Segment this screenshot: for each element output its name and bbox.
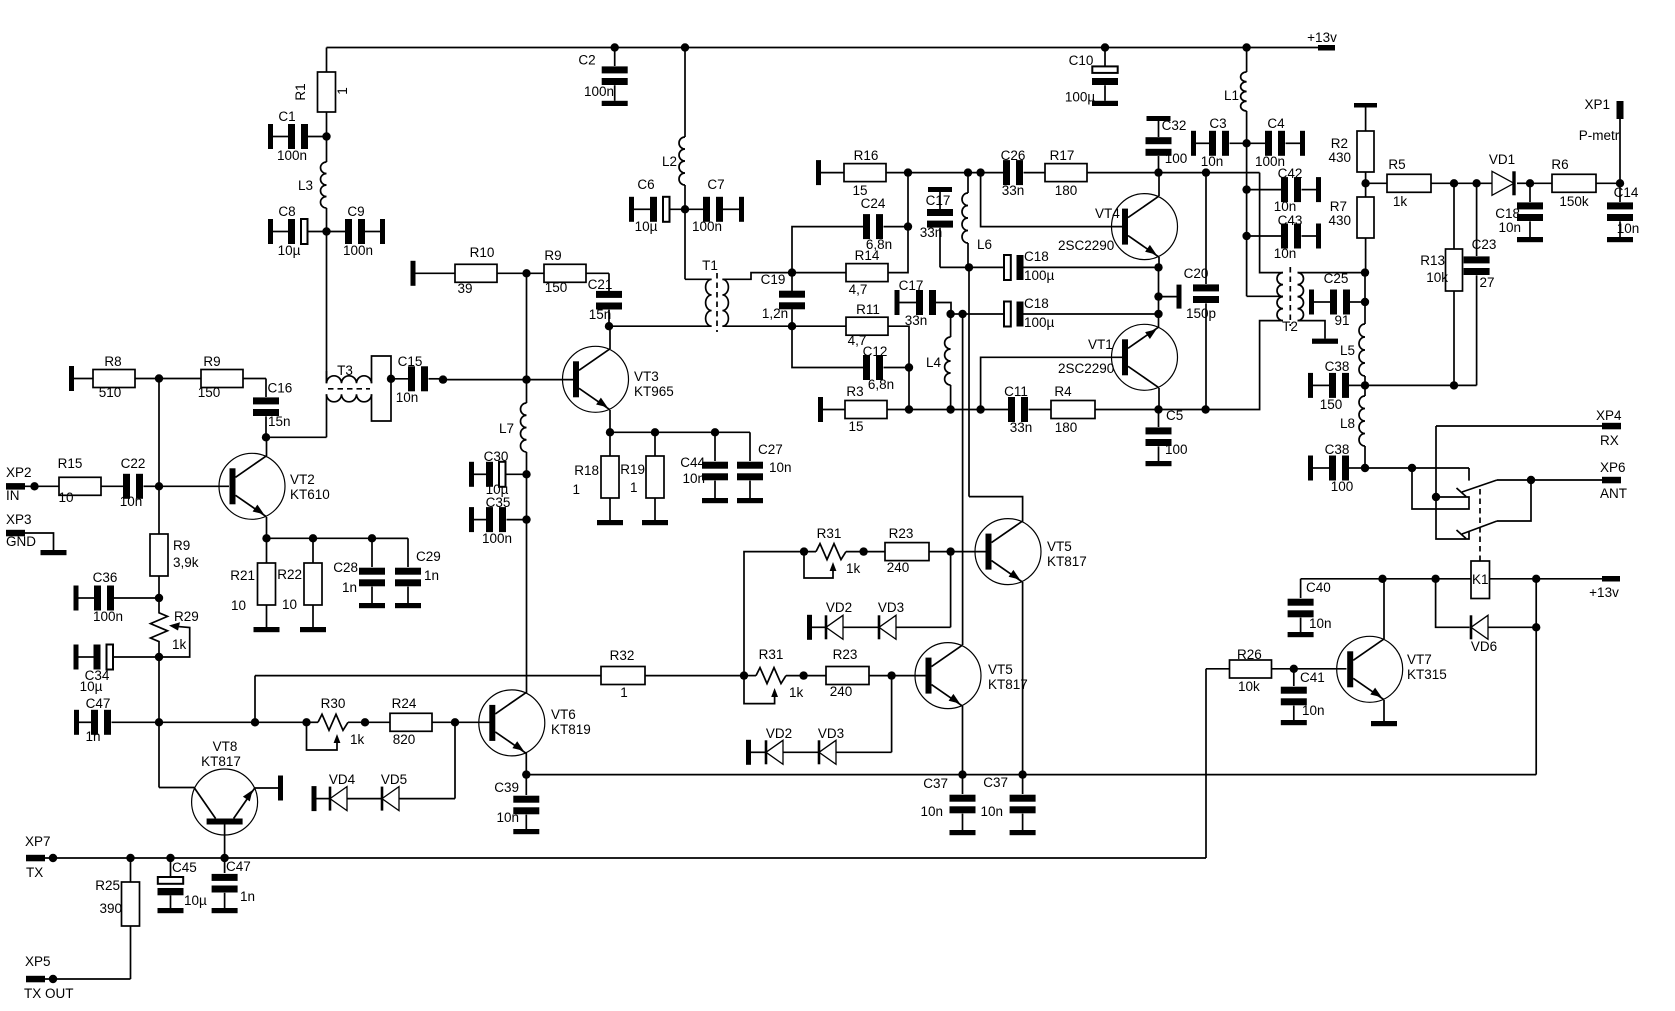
potentiometer R31 1k lower: [744, 675, 756, 677]
node R23 upper junction: [859, 547, 867, 555]
resistor R9 3,9k: [158, 486, 160, 534]
terminal bar at VD4: [312, 786, 317, 811]
svg-text:R18: R18: [574, 463, 599, 478]
wire upper VT5 collector riser: [969, 497, 1023, 522]
wire junction to T3 bottom: [266, 436, 327, 438]
resistor R25 390: [130, 858, 132, 882]
svg-text:C27: C27: [758, 442, 783, 457]
node VT4 emitter - C18 junction: [1154, 263, 1162, 271]
capacitor C36 100n: [74, 586, 79, 611]
svg-text:1: 1: [572, 482, 580, 497]
svg-text:K1: K1: [1472, 572, 1489, 587]
transistor VT7 KT315: [1337, 636, 1403, 702]
capacitor C28 1n: [371, 538, 373, 567]
node R25 tap: [126, 854, 134, 862]
node VD1-C18 junction: [1526, 179, 1534, 187]
ground below C40: [1288, 632, 1314, 637]
wire C47 junction right to R30: [159, 721, 307, 723]
resistor R7 430: [1357, 197, 1374, 238]
svg-text:150: 150: [1320, 397, 1343, 412]
node C16-T3-VT2 collector junction: [262, 433, 270, 441]
svg-text:C36: C36: [93, 570, 118, 585]
svg-text:100n: 100n: [277, 148, 307, 163]
svg-text:R30: R30: [321, 696, 346, 711]
wire to VT1 emitter: [1158, 297, 1160, 327]
node R29-C34 junction: [155, 653, 163, 661]
svg-text:150k: 150k: [1559, 194, 1589, 209]
svg-text:15: 15: [848, 419, 863, 434]
node emitter rail C37 second junction: [1018, 770, 1026, 778]
wire VT2 collector: [266, 437, 268, 456]
inductor L4: [950, 314, 952, 337]
svg-text:VD1: VD1: [1489, 152, 1515, 167]
resistor R19 1: [654, 432, 656, 456]
svg-text:15n: 15n: [589, 307, 612, 322]
svg-text:3,9k: 3,9k: [173, 555, 199, 570]
node R6-XP1-C14 junction: [1616, 179, 1624, 187]
transformer T1: [685, 278, 712, 280]
resistor R23 240 lower: [804, 675, 826, 677]
relay switch arm lower: [1462, 521, 1497, 534]
ground below C44: [702, 498, 728, 503]
svg-text:C28: C28: [333, 560, 358, 575]
wire VD6 junction down to emitter rail: [1535, 627, 1537, 774]
svg-text:33n: 33n: [905, 313, 928, 328]
svg-text:TX OUT: TX OUT: [24, 986, 74, 1001]
svg-text:VD2: VD2: [826, 600, 852, 615]
svg-text:R31: R31: [759, 647, 784, 662]
transistor VT5 KT817 lower: [915, 643, 981, 709]
node C20 bottom junction: [1201, 405, 1209, 413]
svg-text:C17: C17: [926, 193, 951, 208]
svg-text:C23: C23: [1472, 237, 1497, 252]
svg-text:4,7: 4,7: [849, 282, 868, 297]
capacitor C45 10µ polarized: [170, 858, 172, 877]
svg-text:C44: C44: [680, 455, 705, 470]
terminal bar at VD2 upper: [807, 615, 812, 640]
capacitor C21 15n: [608, 273, 610, 291]
svg-text:10n: 10n: [980, 804, 1003, 819]
svg-text:VD2: VD2: [766, 726, 792, 741]
inductor L1: [1246, 48, 1248, 73]
ground at XP3: [41, 550, 67, 555]
svg-text:C25: C25: [1324, 271, 1349, 286]
node VT6 emitter junction: [522, 770, 530, 778]
diode VD2 lower: [765, 740, 768, 764]
wire VT8 base down to TX rail: [224, 824, 226, 859]
svg-text:C22: C22: [121, 456, 146, 471]
svg-text:C17: C17: [899, 278, 924, 293]
svg-text:10n: 10n: [920, 804, 943, 819]
svg-text:10n: 10n: [1309, 616, 1332, 631]
svg-text:1,2n: 1,2n: [762, 306, 788, 321]
svg-text:1n: 1n: [424, 568, 439, 583]
svg-text:C38: C38: [1325, 359, 1350, 374]
svg-text:R26: R26: [1237, 647, 1262, 662]
wire VT2 base: [159, 485, 229, 487]
svg-text:C12: C12: [863, 344, 888, 359]
svg-text:VD3: VD3: [818, 726, 844, 741]
svg-text:1: 1: [620, 685, 628, 700]
capacitor C2 100n: [614, 48, 616, 67]
inductor L8: [1364, 385, 1366, 396]
svg-text:R10: R10: [470, 245, 495, 260]
wire C47 junction down to VT8: [158, 722, 160, 787]
ground below C45: [158, 908, 184, 913]
svg-text:C18: C18: [1024, 249, 1049, 264]
svg-text:1k: 1k: [1393, 194, 1408, 209]
node XP6 pole junction: [1527, 476, 1535, 484]
svg-text:2SC2290: 2SC2290: [1058, 361, 1114, 376]
wire TX rail: [45, 857, 1206, 859]
svg-text:6,8n: 6,8n: [868, 377, 894, 392]
svg-text:XP3: XP3: [6, 512, 32, 527]
svg-text:33n: 33n: [1010, 420, 1033, 435]
svg-text:C6: C6: [637, 177, 654, 192]
node R26-C41 junction: [1290, 665, 1298, 673]
node VT5 lower base junction: [887, 671, 895, 679]
svg-text:15n: 15n: [268, 414, 291, 429]
diodes chain wire upper: [950, 552, 952, 628]
svg-text:KT610: KT610: [290, 487, 330, 502]
svg-text:10n: 10n: [120, 494, 143, 509]
resistor R3 15 with terminal: [818, 397, 823, 422]
node VT8 base tap: [220, 854, 228, 862]
svg-text:C7: C7: [707, 177, 724, 192]
node C38-L5-L8 junction: [1361, 381, 1369, 389]
capacitor C47 1n at TX rail: [224, 858, 226, 873]
svg-text:C11: C11: [1004, 384, 1028, 399]
svg-text:VT2: VT2: [290, 472, 315, 487]
svg-text:C30: C30: [484, 449, 509, 464]
wire VT6 emitter: [525, 753, 527, 775]
svg-text:240: 240: [830, 684, 853, 699]
capacitor C35 100n: [469, 507, 474, 532]
svg-text:100n: 100n: [584, 84, 614, 99]
wire R17 to C32 rail: [1159, 172, 1260, 174]
svg-text:10µ: 10µ: [184, 893, 207, 908]
ground below R18: [597, 520, 623, 525]
capacitor C5 100: [1158, 410, 1160, 428]
svg-text:1k: 1k: [172, 637, 187, 652]
wire L6 junction down to VT5 collector riser: [968, 267, 970, 496]
ground below C5: [1146, 461, 1172, 466]
svg-text:10n: 10n: [1498, 220, 1521, 235]
svg-text:1k: 1k: [846, 561, 861, 576]
capacitor C38 150: [1308, 373, 1313, 398]
svg-text:VT1: VT1: [1088, 337, 1113, 352]
wire emitter rail: [526, 774, 1536, 776]
node C36 junction: [155, 594, 163, 602]
terminal bar at VT4/VT1 midpoint: [1177, 285, 1182, 309]
capacitor C18 100µ upper: [969, 266, 1004, 268]
wire to collector riser: [951, 313, 963, 315]
svg-text:150: 150: [198, 385, 221, 400]
resistor R23 240 upper: [864, 551, 885, 553]
svg-text:R9: R9: [544, 248, 561, 263]
connector XP1 P-metr: [1617, 101, 1624, 119]
node C22-R9 junction at VT2 base: [155, 482, 163, 490]
svg-text:390: 390: [99, 901, 122, 916]
svg-text:1: 1: [630, 480, 638, 495]
svg-text:10: 10: [231, 598, 246, 613]
resistor R22 10: [312, 538, 314, 563]
node XP2 junction: [30, 482, 38, 490]
svg-text:KT965: KT965: [634, 384, 674, 399]
node VT5 upper base junction: [946, 547, 954, 555]
svg-text:XP7: XP7: [25, 834, 51, 849]
node R8-R9 junction: [155, 374, 163, 382]
node R7-T2 junction: [1361, 268, 1369, 276]
svg-text:XP2: XP2: [6, 465, 32, 480]
svg-text:1: 1: [335, 87, 350, 95]
capacitor C17 33n vertical: [928, 187, 952, 192]
svg-text:T3: T3: [337, 363, 353, 378]
svg-text:820: 820: [393, 732, 416, 747]
svg-text:C3: C3: [1209, 116, 1226, 131]
svg-text:1k: 1k: [350, 732, 365, 747]
ground below R22: [300, 627, 326, 632]
wire emitter bus: [267, 537, 409, 539]
capacitor C3 10n: [1191, 131, 1196, 156]
node C30 junction: [522, 470, 530, 478]
wire K1 supply rail: [1301, 578, 1471, 580]
inductor L5: [1359, 324, 1365, 376]
node VD6 left junction: [1431, 575, 1439, 583]
wire TX rail riser to R26: [1205, 669, 1207, 858]
svg-text:C35: C35: [486, 495, 511, 510]
capacitor C29 1n: [372, 537, 408, 539]
node C18 lower - VT1 emitter junction: [1154, 310, 1162, 318]
svg-text:VT6: VT6: [551, 707, 576, 722]
transistor VT4 2SC2290: [1112, 194, 1178, 260]
capacitor C19 1,2n: [791, 273, 793, 291]
node R23 lower junction: [799, 671, 807, 679]
resistor R9 150 (driver): [527, 272, 545, 274]
node top rail junction C2: [611, 43, 619, 51]
capacitor C25 91: [1309, 290, 1314, 315]
node L4 top junction: [946, 310, 954, 318]
svg-text:10µ: 10µ: [635, 219, 658, 234]
capacitor C4 100n: [1247, 142, 1265, 144]
svg-text:C43: C43: [1278, 213, 1303, 228]
capacitor C22 10n: [123, 474, 130, 499]
wire R3 row to T2 riser: [1159, 321, 1284, 410]
capacitor C47 1n: [74, 710, 79, 735]
wire to XP4: [1436, 425, 1602, 427]
wire to relay: [1365, 467, 1469, 469]
svg-text:10n: 10n: [1617, 221, 1640, 236]
node C23 tap: [1472, 179, 1480, 187]
svg-text:C19: C19: [761, 272, 786, 287]
capacitor C20 150p: [1205, 173, 1207, 284]
svg-text:180: 180: [1055, 183, 1078, 198]
node C3-C4-L1 junction: [1242, 139, 1250, 147]
node R13 bottom junction: [1450, 381, 1458, 389]
wire riser to R32 wire: [254, 676, 256, 723]
node C15 dot: [439, 375, 447, 383]
power +13v terminal at relay: [1602, 576, 1620, 582]
wire VT2 emitter: [266, 517, 268, 538]
svg-text:C37: C37: [923, 776, 948, 791]
resistor R1 1: [326, 48, 328, 73]
svg-text:1k: 1k: [789, 685, 804, 700]
node C20 top junction: [1202, 168, 1210, 176]
node C24-R14 junction: [904, 222, 912, 230]
svg-text:1n: 1n: [240, 889, 255, 904]
svg-text:VT4: VT4: [1095, 206, 1120, 221]
capacitor C32 100: [1147, 116, 1171, 121]
wire junction down to C15 wire: [526, 273, 528, 379]
wire VT5 upper emitter: [1022, 582, 1024, 775]
svg-text:C2: C2: [578, 53, 595, 68]
node C21-T1-VT3 collector junction: [605, 322, 613, 330]
transistor VT5 KT817 upper: [975, 519, 1041, 585]
capacitor C14 10n: [1619, 183, 1621, 202]
svg-text:39: 39: [457, 281, 472, 296]
node R24 junction: [361, 718, 369, 726]
svg-text:10n: 10n: [396, 390, 419, 405]
svg-text:2SC2290: 2SC2290: [1058, 238, 1114, 253]
ground below C37: [950, 830, 976, 835]
svg-text:R22: R22: [277, 567, 302, 582]
svg-text:C18: C18: [1495, 206, 1520, 221]
wire lower VT5 collector riser: [962, 314, 964, 645]
node relay input junction: [1408, 464, 1416, 472]
svg-text:C37: C37: [983, 775, 1008, 790]
svg-text:R9: R9: [173, 538, 190, 553]
svg-text:R4: R4: [1054, 384, 1072, 399]
capacitor C17 33n lower: [895, 290, 900, 315]
potentiometer R31 1k upper: [744, 552, 816, 676]
capacitor C10 100µ: [1104, 48, 1106, 67]
node R13 tap: [1450, 179, 1458, 187]
terminal bar at VT8 emitter: [278, 776, 283, 801]
wire C35 junction down to VT6 collector: [526, 520, 528, 694]
resistor R17 180: [1045, 164, 1087, 182]
capacitor C16 15n: [265, 379, 267, 398]
R29 wiper arm: [159, 626, 190, 657]
svg-text:C41: C41: [1300, 670, 1325, 685]
svg-text:R15: R15: [58, 456, 83, 471]
svg-text:100µ: 100µ: [1024, 315, 1055, 330]
svg-text:100: 100: [1331, 479, 1354, 494]
capacitor C7 100n: [685, 208, 703, 210]
svg-text:10n: 10n: [682, 471, 705, 486]
svg-text:100n: 100n: [93, 609, 123, 624]
svg-text:100n: 100n: [692, 219, 722, 234]
capacitor C23 27: [1476, 183, 1478, 256]
transformer T3: [326, 371, 328, 383]
svg-text:VT5: VT5: [988, 662, 1013, 677]
svg-text:100µ: 100µ: [1024, 268, 1055, 283]
capacitor C12 6,8n: [792, 326, 863, 367]
resistor R4 180: [1051, 401, 1095, 419]
ground below T2 right winding: [1312, 339, 1338, 344]
svg-text:10n: 10n: [1302, 703, 1325, 718]
capacitor C8 10µ polarized: [268, 219, 273, 244]
capacitor C18 100µ lower: [1004, 302, 1011, 327]
svg-text:XP4: XP4: [1596, 408, 1622, 423]
node R22 tap: [309, 534, 317, 542]
capacitor C39 10n: [525, 775, 527, 795]
node C43 junction: [1242, 232, 1250, 240]
resistor R24 820: [365, 721, 390, 723]
svg-text:10µ: 10µ: [80, 679, 103, 694]
svg-text:10: 10: [58, 490, 73, 505]
ground below C28: [359, 603, 385, 608]
transistor VT3 KT965: [563, 346, 629, 412]
svg-text:C16: C16: [268, 381, 293, 396]
wire R8 junction down to C22 junction: [158, 379, 160, 487]
ground below C47: [212, 908, 238, 913]
relay switch arm upper: [1462, 480, 1497, 492]
wire VT8 emitter to open terminal: [255, 787, 278, 789]
potentiometer R29 1k: [151, 598, 168, 657]
svg-text:10µ: 10µ: [278, 243, 301, 258]
svg-text:R3: R3: [846, 384, 863, 399]
resistor R5 1k: [1366, 182, 1387, 184]
node top rail junction L1: [1242, 43, 1250, 51]
node VT4 collector junction: [1154, 168, 1162, 176]
node XP7 dot: [49, 854, 57, 862]
inductor L7: [526, 380, 528, 403]
node C38 second junction: [1361, 464, 1369, 472]
svg-text:L3: L3: [298, 178, 313, 193]
capacitor C24 6,8n: [792, 227, 863, 273]
capacitor C1 100n: [268, 124, 273, 149]
wire VD6 junction up: [1535, 579, 1537, 628]
svg-text:R29: R29: [174, 609, 199, 624]
node C44 tap: [711, 428, 719, 436]
capacitor C11 33n: [1008, 397, 1015, 422]
svg-text:C21: C21: [588, 277, 613, 292]
node R19 tap: [651, 428, 659, 436]
svg-text:VT3: VT3: [634, 369, 659, 384]
diode VD1: [1492, 171, 1514, 195]
resistor R15 10: [59, 477, 101, 495]
node VT4 base riser junction: [976, 168, 984, 176]
svg-text:ANT: ANT: [1600, 486, 1627, 501]
svg-text:6,8n: 6,8n: [866, 237, 892, 252]
svg-text:100n: 100n: [343, 243, 373, 258]
svg-text:R9: R9: [203, 354, 220, 369]
ground below C14: [1607, 237, 1633, 242]
svg-text:10n: 10n: [1274, 199, 1297, 214]
resistor R8 510 with terminal: [69, 366, 74, 391]
resistor R21 10: [266, 538, 268, 563]
inductor L3: [326, 137, 328, 163]
node XP5 dot: [49, 975, 57, 983]
node T1-C19 top junction: [788, 268, 796, 276]
svg-text:180: 180: [1055, 420, 1078, 435]
ground below C18: [1517, 237, 1543, 242]
resistor R10 39 with terminal: [411, 261, 416, 286]
capacitor C9 100n: [327, 231, 346, 233]
wire C8/C9 junction down to T3: [326, 232, 328, 384]
wire riser junction to C18 lower: [963, 313, 1004, 315]
svg-text:15: 15: [852, 183, 867, 198]
wire VT7 emitter: [1383, 700, 1385, 721]
node C47 junction: [155, 718, 163, 726]
svg-text:1n: 1n: [342, 580, 357, 595]
svg-text:R32: R32: [610, 648, 635, 663]
wire VT4 base riser: [981, 173, 1123, 227]
resistor R6 150k: [1530, 182, 1552, 184]
capacitor C27 10n: [749, 432, 751, 461]
svg-text:100n: 100n: [482, 531, 512, 546]
power +13v terminal top right: [1318, 45, 1335, 51]
